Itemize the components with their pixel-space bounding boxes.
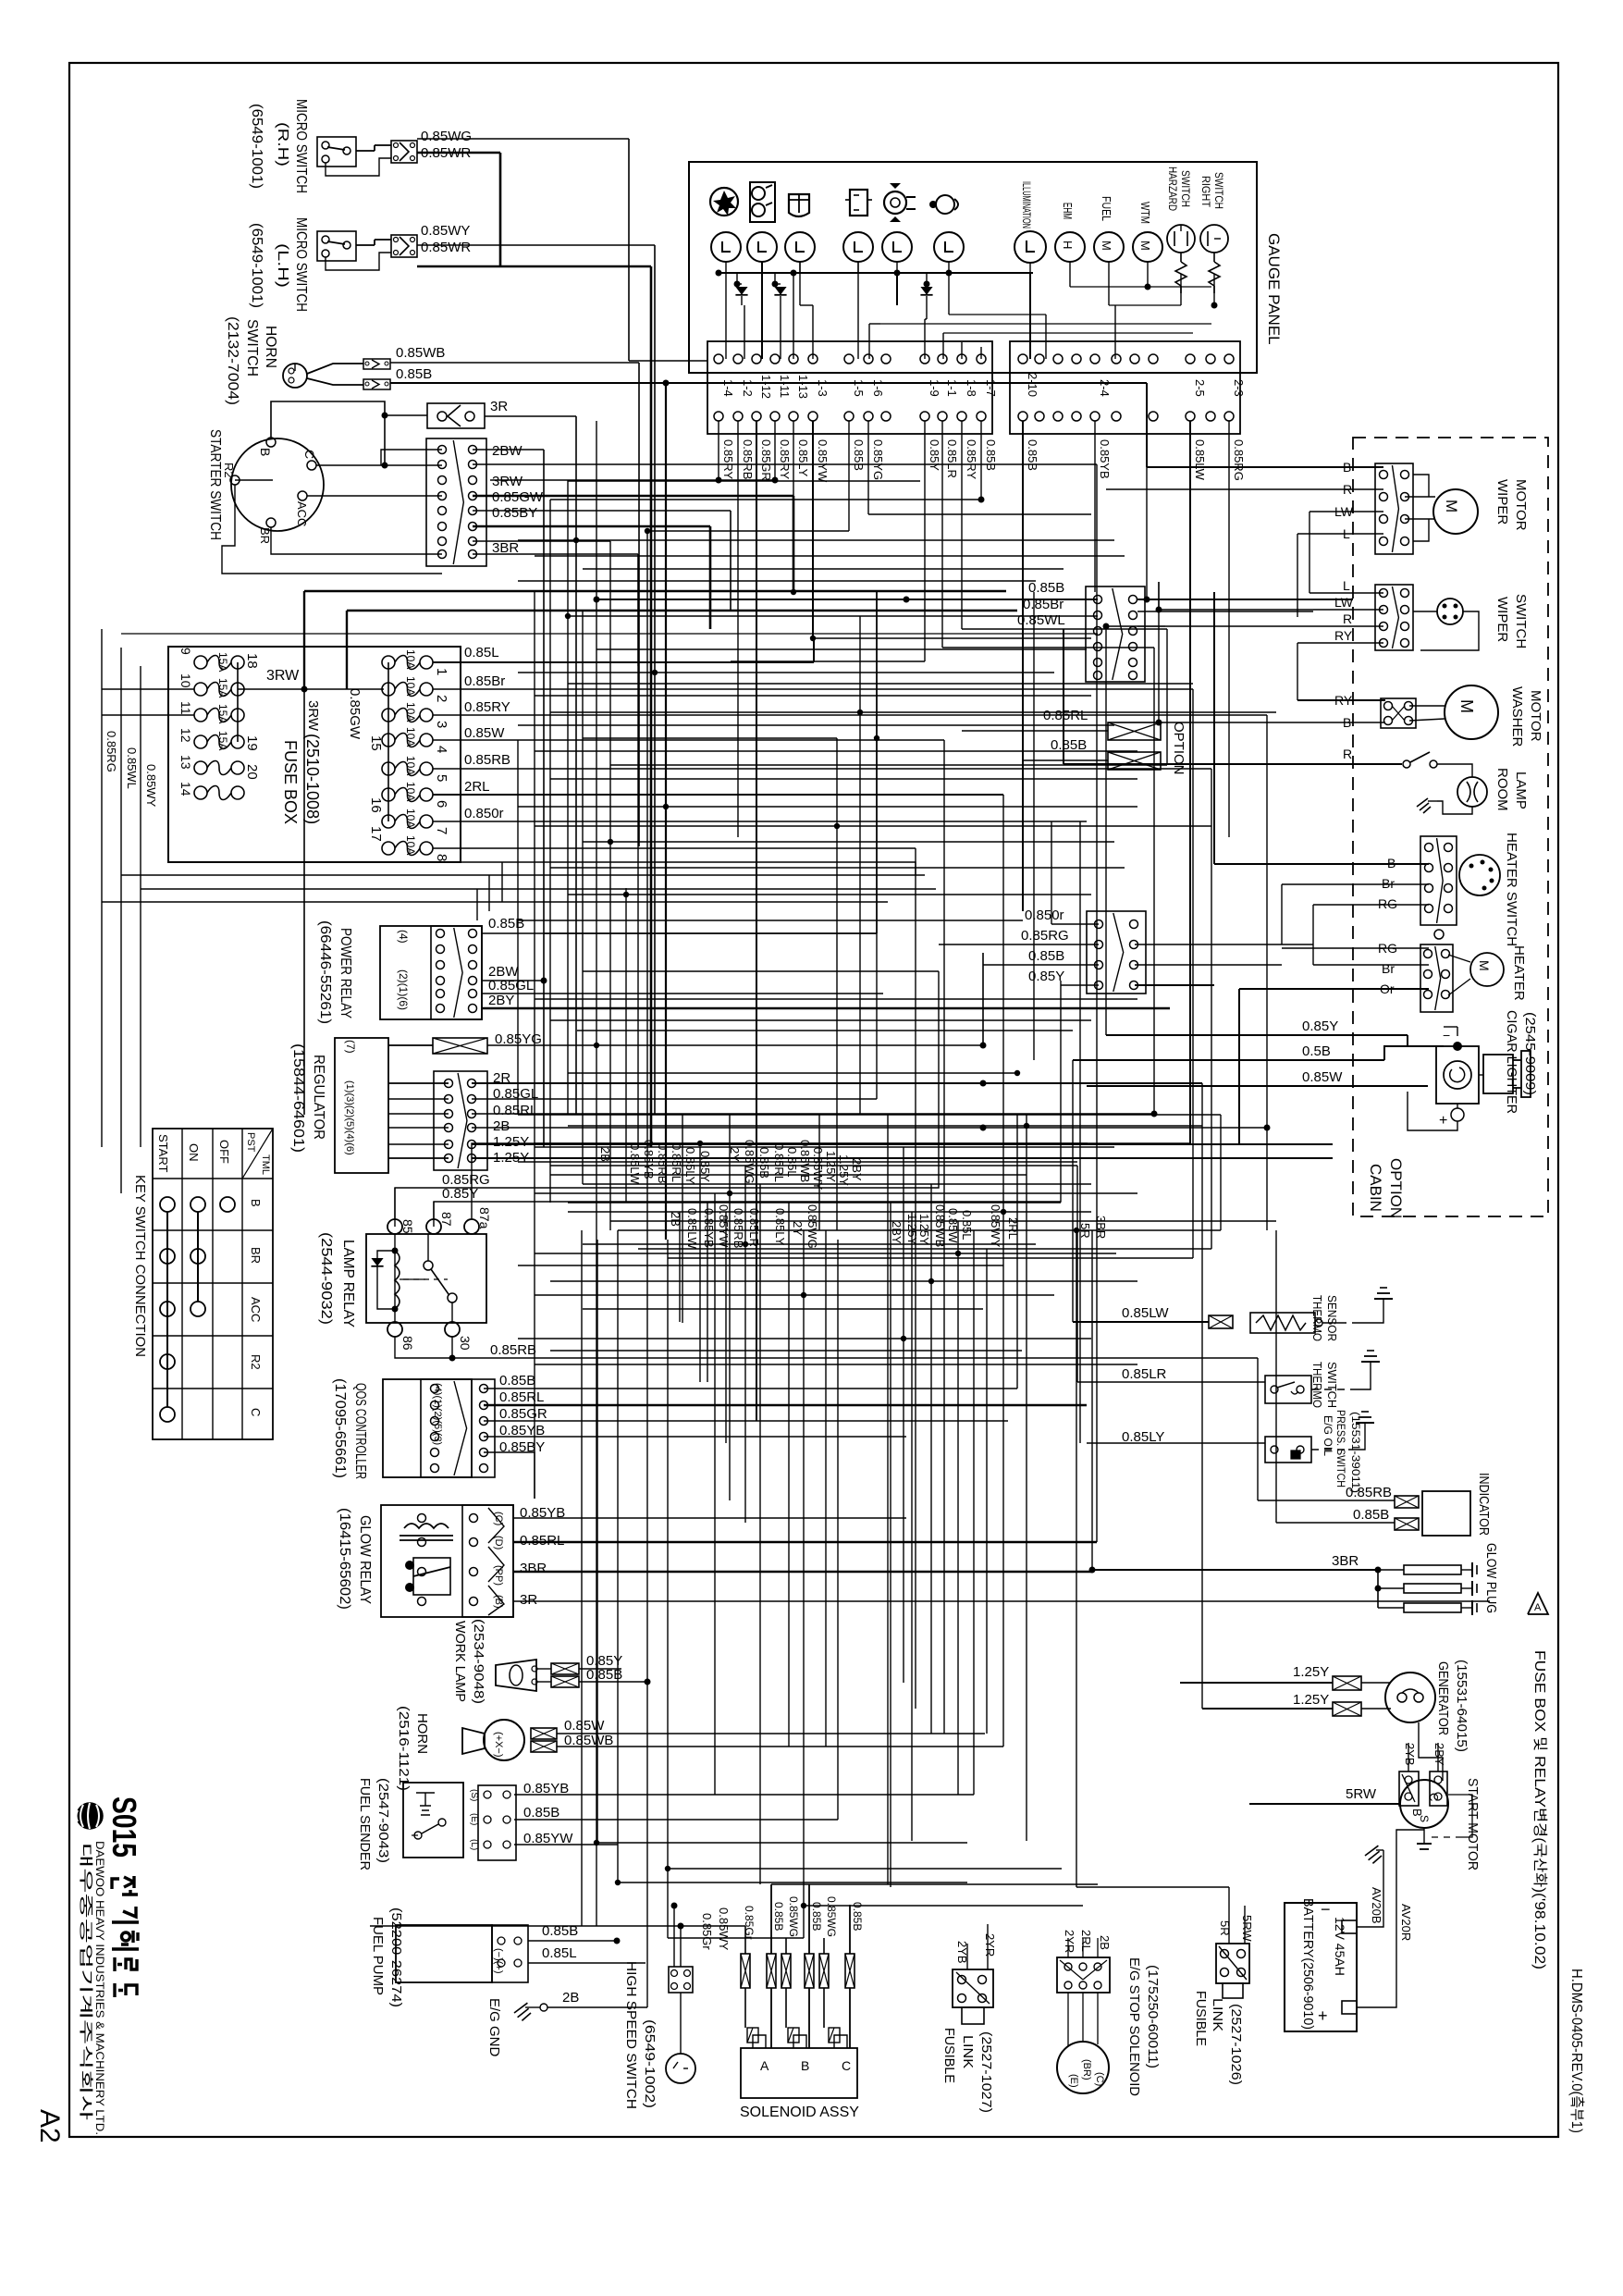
mid connector 6pin	[1086, 586, 1145, 682]
svg-text:6: 6	[434, 800, 449, 808]
svg-text:R2: R2	[249, 1354, 263, 1370]
svg-text:0.85WG: 0.85WG	[421, 129, 472, 144]
svg-text:3: 3	[434, 721, 449, 728]
gauge connector 1 pins	[714, 354, 986, 421]
svg-text:+: +	[1439, 1113, 1447, 1129]
label 0.85WR (RH)	[421, 145, 471, 161]
svg-text:(2527-1027): (2527-1027)	[978, 2031, 994, 2113]
svg-text:0.85RY: 0.85RY	[721, 439, 735, 479]
label GENERATOR (15531-64015)	[1435, 1660, 1469, 1752]
label 0.85RL qos	[499, 1389, 544, 1405]
fuel sender box	[403, 1783, 463, 1858]
svg-text:0.85B: 0.85B	[851, 1902, 864, 1931]
gauge diode 3	[920, 273, 932, 305]
label 0.85B fp	[542, 1923, 578, 1939]
wire 0.85GL reg out	[472, 1098, 877, 1100]
label 2BW pr	[488, 964, 519, 980]
wire 3BR glowplug	[1092, 1569, 1378, 1571]
wire 0.85Y loop	[434, 981, 1061, 1227]
svg-text:0.85WG: 0.85WG	[787, 1896, 800, 1937]
svg-text:2: 2	[434, 695, 449, 702]
svg-text:1.25Y: 1.25Y	[917, 1214, 931, 1245]
lamp relay diode	[371, 1251, 395, 1309]
wire mid 0.85WL	[121, 626, 1165, 634]
svg-text:FUSE BOX 및 RELAY변경(국산화)('98: FUSE BOX 및 RELAY변경(국산화)('98.10.02)	[1531, 1650, 1548, 1969]
svg-text:(2547-9043): (2547-9043)	[375, 1778, 391, 1863]
wire junction dots	[565, 528, 1079, 1908]
label 15	[368, 735, 384, 751]
wire drop 0.85B 1-5	[647, 421, 849, 531]
svg-text:0.85WB: 0.85WB	[933, 1204, 947, 1247]
svg-text:A: A	[1534, 1602, 1542, 1613]
svg-text:0.85B: 0.85B	[772, 1902, 785, 1931]
label 1.25Y gen1	[1293, 1664, 1329, 1680]
wire room R	[1064, 629, 1353, 764]
svg-text:Br: Br	[1382, 961, 1395, 976]
room lamp ground	[1417, 764, 1457, 813]
label 0.85YB fs	[523, 1781, 569, 1796]
svg-text:0.85GR: 0.85GR	[759, 439, 773, 481]
EG gnd symbol	[514, 2003, 547, 2020]
label (7)	[344, 1040, 357, 1054]
wire gen conn	[1361, 1683, 1424, 1722]
wire drop 0.85YW 1-3	[812, 421, 814, 638]
svg-text:0.85YB: 0.85YB	[642, 1140, 656, 1179]
svg-text:8: 8	[434, 854, 449, 861]
svg-text:GENERATOR: GENERATOR	[1435, 1661, 1451, 1735]
svg-text:10A: 10A	[404, 702, 417, 722]
power relay connector	[431, 926, 482, 1019]
svg-text:LINK: LINK	[1210, 1998, 1225, 2031]
svg-text:STARTER SWITCH: STARTER SWITCH	[207, 429, 223, 540]
label 0.85BY qos	[499, 1439, 545, 1455]
label WIPER SWITCH	[1494, 594, 1529, 648]
warning triangle A	[1528, 1593, 1548, 1614]
label 0.85RB ind	[1346, 1485, 1392, 1500]
svg-text:10A: 10A	[404, 676, 417, 696]
label FUSE BOX (2510-1008)	[281, 734, 322, 824]
svg-text:0.850r: 0.850r	[1025, 907, 1064, 923]
wire wiper B	[1147, 383, 1383, 467]
wire drop 0.85RY 1-4	[490, 421, 722, 484]
wire left vertical 0.85WL	[120, 648, 122, 1193]
wire pr 0.85B out	[482, 592, 877, 933]
wire starter R2 loop	[222, 485, 442, 574]
label 0.85LW mid-run	[0, 0, 1, 1]
wire fuse4 0.85W out	[433, 739, 944, 741]
icon fuel	[929, 195, 958, 214]
svg-text:0.85B: 0.85B	[757, 1147, 771, 1179]
label E/G OIL PRESS SWITCH (15531-39011)	[1322, 1410, 1362, 1493]
gauge connector 1 box	[707, 341, 992, 434]
title S015 + Korean circuit-diagram glyphs	[105, 1796, 143, 1997]
svg-text:FUSIBLE: FUSIBLE	[941, 2028, 957, 2083]
label 0.85YW fs	[523, 1831, 573, 1846]
label FUSE BOX and RELAY note	[1531, 1650, 1548, 1969]
wire cigar 0.5B	[1073, 1046, 1444, 1060]
wire starter BR to conn	[271, 527, 442, 554]
table contact circles	[160, 1197, 235, 1422]
wire horn wires	[557, 1734, 1003, 1747]
svg-text:0.85RB: 0.85RB	[741, 439, 755, 479]
svg-text:15A: 15A	[216, 704, 229, 723]
wire micro R.H to connector	[326, 145, 391, 176]
wire washer to motor	[1409, 706, 1445, 721]
wire conn row2 out	[473, 464, 1097, 592]
svg-text:3R: 3R	[490, 399, 508, 414]
battery gnd	[1365, 1845, 1383, 1869]
washer conn contacts	[1392, 706, 1405, 721]
svg-text:(2)(1)(6): (2)(1)(6)	[397, 969, 410, 1010]
svg-text:START: START	[156, 1134, 170, 1172]
svg-text:9: 9	[178, 648, 193, 655]
label 0.85L	[464, 645, 499, 660]
svg-text:C: C	[302, 450, 317, 459]
svg-text:1-4: 1-4	[721, 379, 735, 397]
label 2RL ess	[1079, 1930, 1093, 1952]
svg-text:E/G OIL: E/G OIL	[1322, 1415, 1334, 1456]
svg-text:WIPER: WIPER	[1494, 597, 1510, 642]
svg-text:0.85LW: 0.85LW	[1193, 439, 1207, 481]
label 0.85B opt	[1051, 737, 1087, 753]
label AV20B	[1370, 1887, 1383, 1924]
svg-text:WTM: WTM	[1138, 202, 1152, 224]
label CABIN OPTION	[1367, 1158, 1405, 1218]
wiper motor circle	[1433, 489, 1478, 534]
label FUSIBLE LINK (2527-1027)	[941, 2028, 994, 2113]
svg-text:M: M	[1457, 699, 1476, 713]
svg-text:SWITCH: SWITCH	[1513, 594, 1529, 648]
svg-text:(2510-1008): (2510-1008)	[303, 734, 322, 824]
wire qos1 out	[484, 1388, 1017, 1389]
room lamp switch	[1353, 752, 1437, 768]
svg-text:0.85Y: 0.85Y	[698, 1151, 712, 1182]
heater connector	[1420, 944, 1453, 1012]
wire 0.85WR LH run	[417, 266, 651, 1147]
svg-text:PRESS. SWITCH: PRESS. SWITCH	[1334, 1410, 1347, 1487]
svg-text:2RL: 2RL	[464, 779, 490, 795]
wire 1.25Y gen1	[1180, 1144, 1333, 1683]
icon water temp	[789, 194, 809, 216]
wire drop 0.85YG 1-6	[868, 421, 1091, 514]
svg-text:0.85RL: 0.85RL	[772, 1143, 786, 1182]
svg-text:−: −	[1443, 1028, 1450, 1043]
svg-text:E/G GND: E/G GND	[486, 1998, 502, 2057]
glow plug symbols	[1375, 1562, 1478, 1615]
label A2	[34, 2109, 65, 2143]
indicator fuses	[1395, 1496, 1419, 1530]
svg-text:0.85WY: 0.85WY	[717, 1907, 731, 1951]
svg-text:0.85L: 0.85L	[785, 1147, 799, 1178]
EHM circle	[1055, 203, 1085, 262]
qos connector	[421, 1379, 495, 1477]
WTM circle	[1133, 202, 1162, 262]
label 2R	[493, 1070, 510, 1086]
svg-text:LAMP RELAY: LAMP RELAY	[340, 1240, 356, 1327]
wire 0.85WY run	[417, 245, 655, 1115]
label 0.85RL glow	[520, 1533, 564, 1549]
wire fusebox bottom wrap3	[141, 888, 936, 890]
wire 2YR fl up	[988, 1887, 1062, 1969]
svg-text:M: M	[1443, 500, 1460, 512]
label B R LW L wiper	[1334, 460, 1354, 541]
label E/G STOP SOLENOID (175250-60011)	[1126, 1957, 1161, 2096]
label 0.85Y wl	[586, 1653, 622, 1669]
cigar lighter body	[1408, 1027, 1531, 1130]
glow relay connector	[418, 1505, 514, 1617]
svg-text:(S): (S)	[469, 1789, 479, 1801]
heater switch connector	[1420, 836, 1457, 925]
wire drop 0.85YB 2-4	[1094, 421, 1096, 592]
svg-text:0.85WY: 0.85WY	[811, 1147, 825, 1191]
wire 0.85LW run	[1073, 1321, 1209, 1323]
label LAMP RELAY (2544-9032)	[318, 1232, 356, 1327]
wire 0.85B ind	[1276, 1522, 1395, 1524]
svg-text:BR: BR	[258, 527, 272, 544]
svg-text:MOTOR: MOTOR	[1513, 479, 1529, 531]
svg-text:Br: Br	[1382, 876, 1395, 891]
svg-text:0.85B: 0.85B	[1026, 439, 1039, 471]
label 0.85B mid	[1028, 580, 1064, 596]
svg-text:(15531-64015): (15531-64015)	[1454, 1660, 1469, 1752]
svg-text:(7): (7)	[344, 1040, 357, 1054]
wire room lamp	[1437, 764, 1472, 814]
start motor conn 2BY	[1430, 1771, 1447, 1806]
wire drop 0.85LY 1-13	[793, 421, 794, 592]
label B Br RG heater sw	[1378, 856, 1397, 911]
wire glow3 out	[513, 1567, 1096, 1574]
svg-text:QOS CONTROLLER: QOS CONTROLLER	[352, 1383, 368, 1479]
wire lamp relay 87 up	[433, 1202, 435, 1219]
right sw resistor	[1209, 253, 1220, 293]
svg-text:3BR: 3BR	[1332, 1553, 1359, 1569]
label 87a	[477, 1207, 492, 1229]
label KEY SWITCH CONNECTION	[132, 1175, 148, 1357]
wire fusebox bottom wrap2	[121, 874, 925, 876]
wire fuse3 0.85RY out	[433, 714, 1267, 716]
svg-text:(2545-9009): (2545-9009)	[1522, 1012, 1538, 1095]
starter switch body	[222, 438, 324, 544]
gauge diode 2	[772, 273, 787, 305]
svg-text:1.25Y: 1.25Y	[1293, 1664, 1329, 1680]
svg-text:0.85W: 0.85W	[564, 1718, 605, 1734]
label 0.85WR (LH)	[421, 240, 471, 255]
svg-text:DAEWOO HEAVY INDUSTRIES &: DAEWOO HEAVY INDUSTRIES & MACHINERY LTD.	[93, 1841, 106, 2135]
svg-text:0.85B: 0.85B	[852, 439, 866, 471]
washer motor connector	[1381, 698, 1416, 728]
svg-text:0.85Y: 0.85Y	[1302, 1018, 1338, 1034]
lamp relay terminals	[387, 1219, 479, 1337]
svg-text:0.85WG: 0.85WG	[825, 1896, 838, 1937]
svg-text:10A: 10A	[404, 782, 417, 801]
svg-text:0.85RL: 0.85RL	[499, 1389, 544, 1405]
wire wiper R	[1106, 488, 1383, 490]
label 0.85B horn	[396, 366, 432, 382]
svg-text:2YR: 2YR	[983, 1933, 997, 1957]
svg-text:(L.H): (L.H)	[275, 243, 290, 288]
label RG Br Or heater	[1378, 941, 1397, 996]
horn connector 0.85WB	[363, 359, 390, 369]
wire drop 0.85LR 1-1	[942, 421, 1154, 648]
solenoid fuse labels	[743, 1896, 864, 1940]
oil press switch box	[1265, 1437, 1311, 1463]
svg-text:1-2: 1-2	[741, 379, 755, 397]
wire reg to conn 4	[388, 1127, 449, 1129]
svg-text:(175250-60011): (175250-60011)	[1145, 1965, 1161, 2068]
label 0.85WL left	[125, 747, 139, 789]
label 87	[439, 1212, 454, 1227]
label 0.85WG	[421, 129, 472, 144]
svg-text:M: M	[1100, 241, 1113, 251]
svg-text:0.85LR: 0.85LR	[1122, 1366, 1167, 1382]
svg-text:(6549-1002): (6549-1002)	[642, 2019, 658, 2108]
svg-text:S015: S015	[105, 1796, 143, 1858]
horn connector 0.85B	[363, 379, 390, 389]
svg-text:2Y: 2Y	[791, 1221, 805, 1236]
label 0.850r mid	[1025, 907, 1064, 923]
wire fp 2	[528, 1962, 646, 1964]
svg-text:HEATER SWITCH: HEATER SWITCH	[1504, 833, 1519, 946]
EG stop solenoid connector	[1057, 1957, 1110, 1993]
label 0.85W cigar	[1302, 1069, 1343, 1085]
fuse box outline (2510-1008)	[168, 647, 461, 862]
wire reg to conn 1	[388, 1082, 449, 1084]
svg-text:(1)(3)(2)(5)(4)(6): (1)(3)(2)(5)(4)(6)	[344, 1080, 355, 1155]
wire qos4 out	[484, 1436, 906, 1438]
glow relay box	[381, 1505, 513, 1617]
svg-text:A: A	[760, 2058, 769, 2073]
label 0.85RB lamp	[490, 1342, 536, 1358]
svg-text:MICRO SWITCH: MICRO SWITCH	[293, 217, 309, 312]
svg-text:HIGH SPEED SWITCH: HIGH SPEED SWITCH	[623, 1961, 639, 2109]
wire drop 0.85RG 2-3	[1228, 421, 1230, 837]
svg-text:10A: 10A	[404, 649, 417, 669]
label (C)(D)(PP)(B)	[493, 1512, 504, 1609]
svg-text:(2534-9048): (2534-9048)	[471, 1619, 486, 1704]
label 19 20	[244, 735, 260, 780]
label WIPER MOTOR	[1494, 479, 1529, 531]
wire 0.85RG loop	[395, 971, 939, 1227]
svg-text:BR: BR	[249, 1247, 263, 1264]
wire 3R out	[485, 416, 576, 1115]
svg-text:0.85YW: 0.85YW	[717, 1204, 731, 1248]
start motor ground	[1417, 1795, 1472, 1849]
wire fuse6 2RL out	[433, 794, 1003, 796]
svg-text:0.85RB: 0.85RB	[656, 1143, 670, 1183]
label 0.85L fp	[542, 1945, 577, 1961]
label 1.25Y reg b	[493, 1150, 529, 1166]
lamp relay contact	[400, 1234, 457, 1322]
svg-text:M: M	[1138, 241, 1152, 251]
wire ess drops	[1062, 1887, 1098, 2046]
svg-text:MICRO SWITCH: MICRO SWITCH	[293, 99, 309, 193]
svg-text:0.85W: 0.85W	[946, 1208, 960, 1243]
label 0.5B cigar	[1302, 1043, 1331, 1059]
label QOS CONTROLLER (17095-65661)	[332, 1378, 368, 1479]
label START MOTOR	[1465, 1778, 1481, 1870]
wire wrap stair jogs	[477, 862, 502, 920]
svg-text:EHM: EHM	[1061, 203, 1075, 219]
svg-text:MOTOR: MOTOR	[1528, 690, 1543, 742]
svg-text:대우중공업기계주식회사: 대우중공업기계주식회사	[78, 1843, 93, 2120]
svg-text:FUEL SENDER: FUEL SENDER	[357, 1778, 373, 1870]
svg-text:(2516-1121): (2516-1121)	[396, 1706, 412, 1791]
wire micro L.H to connector	[326, 240, 391, 270]
label 2B gnd	[562, 1990, 579, 2006]
wire starter ACC to conn	[307, 495, 442, 497]
gauge conn2 pin labels	[1026, 373, 1246, 397]
wire mid2 0.850r	[1051, 821, 1099, 924]
svg-text:(4)(1)(2)(5)(3): (4)(1)(2)(5)(3)	[432, 1383, 443, 1445]
svg-text:5RW: 5RW	[1240, 1915, 1254, 1942]
wire 0.85LR run	[1077, 1381, 1265, 1383]
svg-text:3RW: 3RW	[266, 668, 300, 684]
label 2BW	[492, 443, 523, 459]
svg-text:2-3: 2-3	[1232, 379, 1246, 397]
svg-text:ILLUMINATION: ILLUMINATION	[1020, 181, 1033, 228]
svg-text:H: H	[1061, 241, 1075, 249]
micro switch R.H body	[317, 137, 356, 167]
svg-text:15A: 15A	[216, 652, 229, 672]
svg-text:0.85RB: 0.85RB	[1346, 1485, 1392, 1500]
svg-text:(L): (L)	[469, 1839, 479, 1850]
fusible link 1026 tail	[1223, 1983, 1243, 1998]
wire reg to conn 5	[388, 1143, 449, 1145]
svg-text:(2527-1026): (2527-1026)	[1228, 2004, 1244, 2085]
svg-text:0.85BY: 0.85BY	[492, 505, 537, 521]
wire 0.85BY out	[473, 526, 710, 629]
svg-text:87a: 87a	[477, 1207, 492, 1229]
svg-text:1-6: 1-6	[871, 379, 885, 397]
label 12V 45AH	[1333, 1917, 1347, 1976]
svg-text:10A: 10A	[404, 727, 417, 747]
label GLOW PLUG	[1483, 1543, 1499, 1613]
svg-text:ROOM: ROOM	[1494, 768, 1510, 811]
wire mid2 out1	[1135, 905, 1313, 944]
label 30	[458, 1336, 473, 1351]
svg-text:LINK: LINK	[960, 2035, 976, 2068]
svg-text:3BR: 3BR	[1094, 1216, 1108, 1239]
label FUEL SENDER (2547-9043)	[357, 1778, 391, 1870]
label 0.85Y cigar	[1302, 1018, 1338, 1034]
svg-text:0.85L: 0.85L	[542, 1945, 577, 1961]
svg-text:WIPER: WIPER	[1494, 479, 1510, 525]
regulator box	[335, 1038, 388, 1173]
starter connector 8pin	[426, 438, 486, 566]
label 3BR	[492, 540, 519, 556]
wire fusebox left feed1	[102, 688, 194, 690]
label 0.85YB qos	[499, 1423, 545, 1438]
svg-text:0.85B: 0.85B	[523, 1805, 559, 1821]
svg-text:0.85B: 0.85B	[499, 1373, 535, 1389]
label CIGAR LIGHTER (2545-9009)	[1504, 1010, 1538, 1114]
label 0.85B ind	[1353, 1507, 1389, 1523]
svg-text:CIGAR LIGHTER: CIGAR LIGHTER	[1504, 1010, 1519, 1114]
wire wiper L	[1297, 534, 1383, 617]
wire lamp relay 30 down	[449, 1337, 1259, 1362]
room lamp bulb	[1457, 777, 1487, 807]
svg-text:LW: LW	[1334, 595, 1354, 610]
label 3R glow	[520, 1592, 537, 1608]
svg-text:PST: PST	[245, 1132, 256, 1153]
svg-text:RG: RG	[1378, 896, 1397, 911]
label 2YR fl27	[983, 1933, 997, 1957]
svg-text:0.85RL: 0.85RL	[670, 1143, 683, 1182]
svg-text:0.85RY: 0.85RY	[464, 699, 510, 715]
wire fusebox top bus	[304, 591, 1006, 689]
wire qos2 out	[484, 1404, 1087, 1406]
svg-text:3RW: 3RW	[492, 474, 523, 489]
